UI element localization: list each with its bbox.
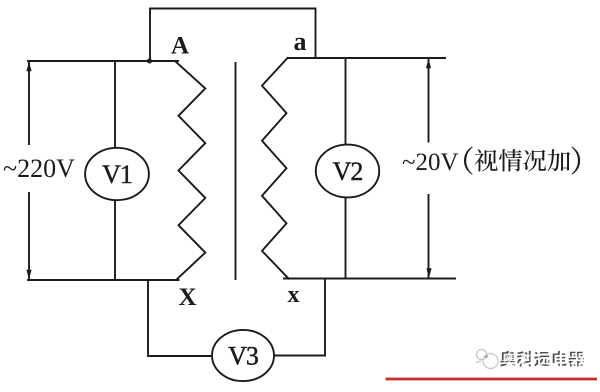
junction node at A — [147, 59, 152, 64]
voltmeter V2 — [316, 145, 379, 198]
dimension line ~220V — [28, 63, 30, 278]
svg-text:~220V: ~220V — [3, 154, 75, 183]
wire: V3 loop left — [148, 280, 212, 356]
label ~20V(as-needed) — [399, 143, 585, 195]
wire: secondary bottom horizontal — [284, 278, 455, 280]
wire: V2 branch — [345, 58, 347, 279]
svg-text:a: a — [294, 27, 307, 56]
svg-text:V1: V1 — [102, 160, 132, 189]
logo char 电 — [553, 351, 567, 366]
secondary winding W2 (a-x) — [262, 58, 289, 279]
logo char 奥 — [500, 351, 516, 367]
wire: secondary top horizontal — [288, 57, 445, 59]
logo char 远 — [534, 352, 550, 367]
wire: primary top horizontal — [28, 60, 178, 62]
logo char 器 — [568, 352, 584, 367]
svg-text:~20V: ~20V — [402, 149, 459, 176]
primary winding W1 (A-X) — [175, 61, 205, 280]
voltmeter V1 — [85, 148, 149, 200]
label char 况 — [524, 150, 546, 172]
dimension line ~20V — [428, 60, 430, 277]
arrowhead 20V bottom — [426, 268, 431, 278]
svg-text:V3: V3 — [228, 341, 258, 370]
wire: top link A-to-a — [150, 9, 316, 62]
logo red underline — [386, 378, 598, 381]
svg-text:V2: V2 — [333, 157, 363, 186]
arrowhead 220V bottom — [26, 270, 31, 280]
transformer core — [235, 63, 237, 279]
wire: V1 branch — [114, 61, 116, 280]
logo icon (bird) — [476, 350, 498, 369]
label close paren — [571, 147, 580, 175]
label ~220V — [1, 145, 77, 192]
label char 视 — [474, 149, 497, 171]
voltmeter V3 — [212, 330, 274, 381]
svg-text:x: x — [288, 282, 300, 308]
arrowhead 220V top — [26, 62, 31, 72]
svg-text:A: A — [171, 33, 189, 60]
svg-text:X: X — [178, 284, 196, 311]
label open paren — [464, 147, 473, 175]
arrowhead 20V top — [426, 59, 431, 69]
logo char 科 — [517, 351, 533, 366]
label char 情 — [499, 149, 522, 171]
wire: primary bottom horizontal — [28, 279, 179, 281]
label char 加 — [547, 149, 570, 171]
wire: V3 loop right — [275, 279, 326, 356]
